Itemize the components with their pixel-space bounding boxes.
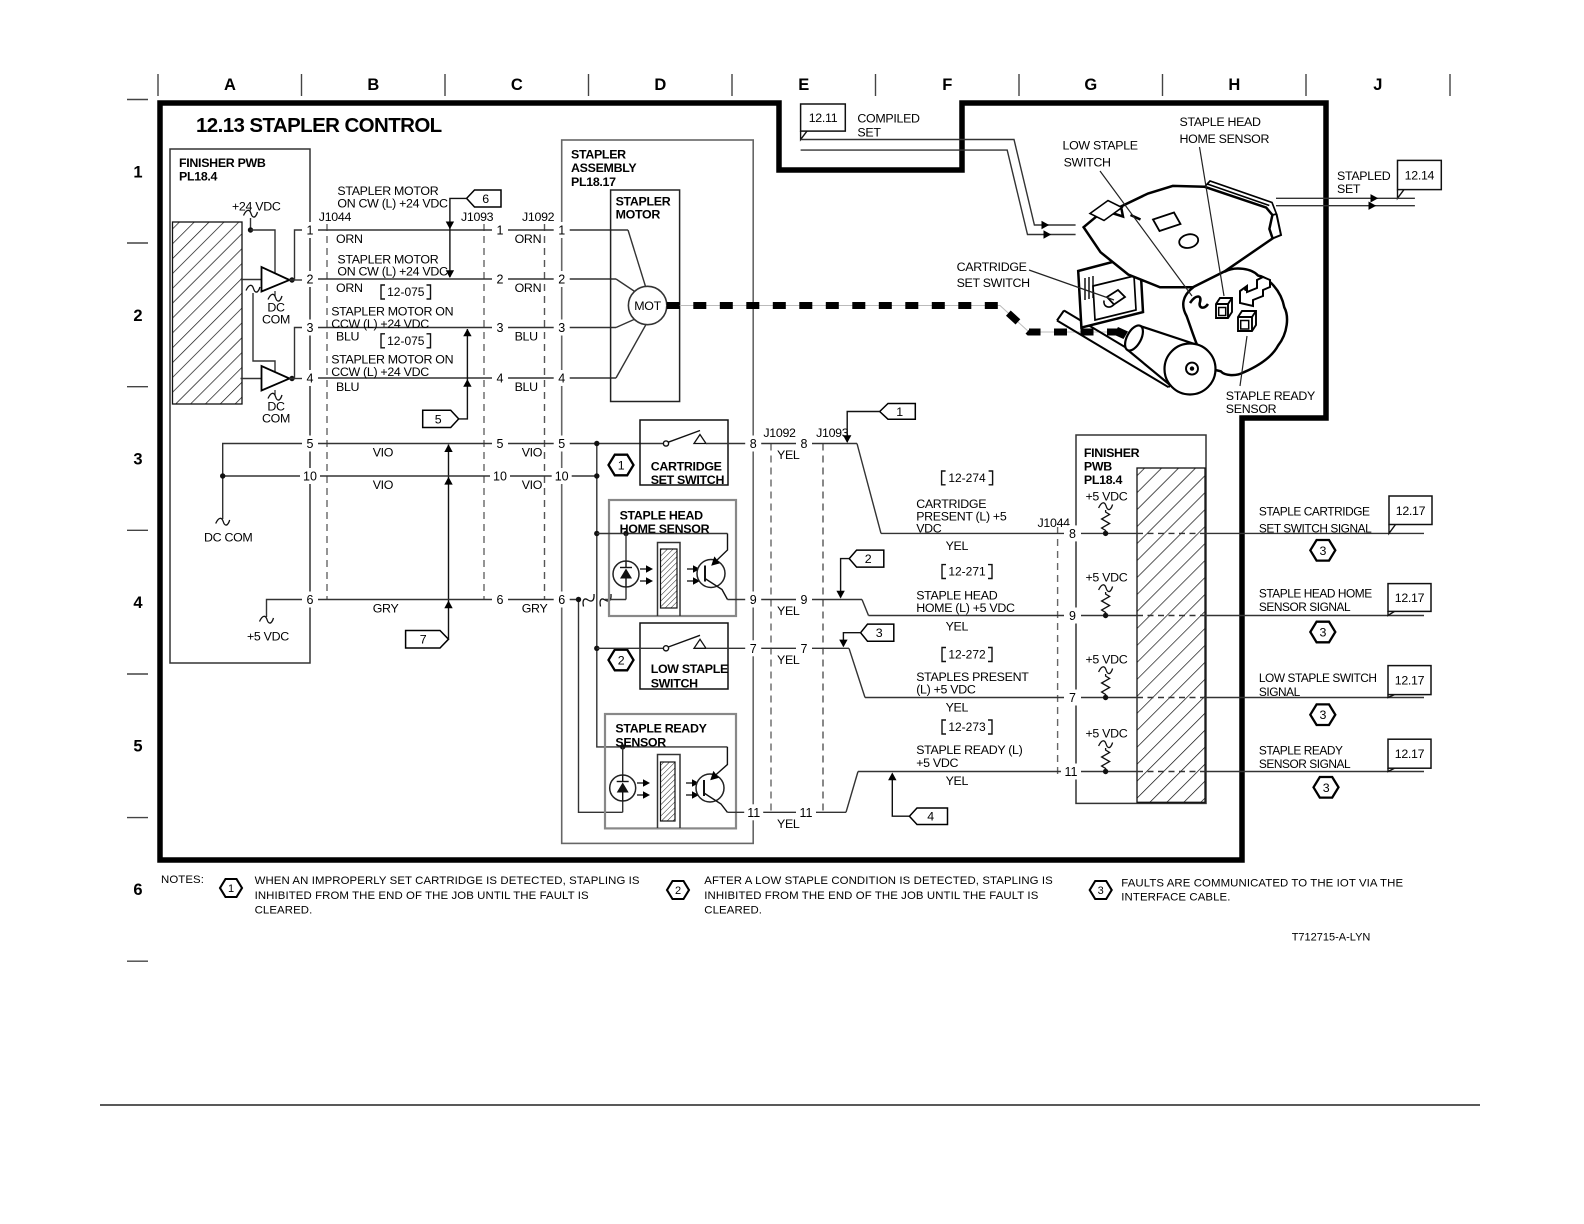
fault reference 12-273: [942, 720, 992, 734]
svg-text:CLEARED.: CLEARED.: [704, 904, 762, 916]
svg-text:5: 5: [133, 738, 142, 756]
stapler pictorial low staple switch lever: [1190, 297, 1208, 308]
svg-text:SIGNAL: SIGNAL: [1259, 685, 1301, 699]
svg-text:3: 3: [497, 321, 504, 335]
signal label cartridge present: [916, 497, 1007, 553]
svg-text:STAPLE HEAD: STAPLE HEAD: [1180, 115, 1262, 129]
motor driver U1 (CW): [241, 267, 291, 327]
LED of staple head home sensor: [613, 561, 653, 587]
svg-text:BLU: BLU: [336, 380, 359, 394]
svg-text:12-075: 12-075: [387, 285, 425, 299]
drawing number: [1292, 931, 1371, 943]
svg-text:4: 4: [133, 594, 143, 612]
svg-text:3: 3: [1098, 885, 1104, 897]
svg-text:J1093: J1093: [461, 210, 494, 224]
+24 VDC feed to driver U2: [246, 285, 275, 375]
svg-text:LOW STAPLE: LOW STAPLE: [1063, 139, 1138, 153]
svg-text:STAPLE CARTRIDGE: STAPLE CARTRIDGE: [1259, 504, 1370, 518]
signal label staple ready: [916, 743, 1022, 788]
label staple head home sensor: [1180, 115, 1270, 296]
svg-text:2: 2: [307, 273, 314, 287]
label staple ready sensor: [1226, 336, 1315, 416]
flag 1 arrow to pin 8: [843, 404, 915, 444]
footer rule: [100, 1104, 1480, 1106]
note hexagon 3 legend: [1090, 881, 1112, 899]
svg-text:12.17: 12.17: [1396, 504, 1426, 518]
svg-text:SENSOR SIGNAL: SENSOR SIGNAL: [1259, 757, 1351, 771]
note hexagon 2: [609, 650, 634, 671]
note hexagon 3 row 8: [1310, 540, 1335, 561]
svg-text:F: F: [942, 76, 952, 94]
finisher PWB PL18.4 box (right): [1076, 435, 1206, 803]
callout 12.17 row 11: [1388, 739, 1431, 771]
connector J1093 output pin numbers: [796, 436, 816, 821]
svg-text:SWITCH: SWITCH: [1064, 156, 1111, 170]
svg-text:SET: SET: [857, 125, 881, 139]
interrupter slot and flag of staple head home sensor: [658, 543, 681, 617]
svg-text:10: 10: [303, 470, 317, 484]
stapler pictorial staple ready sensor block: [1238, 311, 1256, 331]
svg-text:10: 10: [555, 470, 569, 484]
wire VIO pin 5: [317, 444, 663, 460]
phototransistor of staple head home sensor: [687, 534, 746, 600]
stapler motor box: [611, 190, 680, 402]
svg-text:2: 2: [618, 654, 625, 668]
staple head home sensor: [597, 500, 736, 616]
svg-text:WHEN AN IMPROPERLY SET CARTRID: WHEN AN IMPROPERLY SET CARTRIDGE IS DETE…: [255, 875, 640, 887]
pull-up resistor R4: [1086, 727, 1128, 775]
svg-text:12-075: 12-075: [387, 334, 425, 348]
svg-text:1: 1: [618, 459, 625, 473]
svg-text:ON CW (L) +24 VDC: ON CW (L) +24 VDC: [337, 265, 448, 279]
svg-text:J: J: [1373, 76, 1382, 94]
svg-text:B: B: [367, 76, 379, 94]
motor MOT: [628, 286, 666, 324]
svg-text:2: 2: [865, 552, 872, 566]
svg-text:5: 5: [497, 437, 504, 451]
svg-text:COM: COM: [262, 412, 290, 426]
svg-text:12.14: 12.14: [1405, 168, 1435, 182]
note hexagon 3 row 7: [1310, 704, 1335, 725]
svg-text:YEL: YEL: [946, 619, 969, 633]
svg-text:6: 6: [133, 881, 142, 899]
notes legend: [161, 874, 204, 886]
svg-text:3: 3: [876, 626, 883, 640]
svg-text:7: 7: [750, 642, 757, 656]
cartridge set switch: [640, 420, 746, 487]
svg-text:G: G: [1084, 76, 1097, 94]
output label low staple switch signal: [1259, 671, 1377, 699]
svg-text:BLU: BLU: [336, 330, 359, 344]
svg-text:T712715-A-LYN: T712715-A-LYN: [1292, 931, 1371, 943]
compiled set callout 12.11: [801, 104, 920, 140]
svg-text:YEL: YEL: [946, 701, 969, 715]
svg-text:+5 VDC: +5 VDC: [916, 756, 958, 770]
connector J1093 pin numbers: [490, 222, 510, 608]
svg-text:11: 11: [1065, 765, 1078, 779]
svg-text:SET SWITCH: SET SWITCH: [651, 473, 725, 487]
svg-text:ORN: ORN: [515, 232, 542, 246]
svg-text:VIO: VIO: [373, 478, 394, 492]
svg-text:4: 4: [497, 372, 504, 386]
signal label staple head home: [916, 589, 1015, 634]
svg-text:STAPLE READY: STAPLE READY: [615, 721, 707, 735]
fault reference 12-075 lower: [381, 334, 431, 348]
stapler pictorial body blob: [1183, 269, 1287, 376]
svg-text:J1044: J1044: [319, 210, 352, 224]
svg-text:2: 2: [675, 885, 681, 897]
wire BLU pin 3: [317, 320, 634, 344]
wire BLU pin 4: [317, 325, 646, 395]
phototransistor of staple ready sensor: [686, 747, 746, 812]
svg-text:6: 6: [482, 192, 489, 206]
connector J1044 output pin numbers: [1061, 525, 1081, 779]
svg-text:12-273: 12-273: [948, 720, 986, 734]
svg-text:PWB: PWB: [1084, 459, 1112, 473]
svg-text:12.17: 12.17: [1395, 591, 1425, 605]
connector J1093: [461, 210, 494, 600]
wire staple cartridge set switch signal: [881, 532, 1424, 534]
svg-text:4: 4: [307, 372, 314, 386]
svg-text:HOME (L) +5 VDC: HOME (L) +5 VDC: [916, 601, 1015, 615]
note hexagon 1: [609, 455, 634, 476]
svg-text:STAPLE HEAD HOME: STAPLE HEAD HOME: [1259, 586, 1372, 600]
svg-text:FINISHER PWB: FINISHER PWB: [179, 156, 266, 170]
wire YEL pin 8: [761, 444, 881, 534]
svg-text:BLU: BLU: [515, 330, 538, 344]
fault reference 12-271: [942, 565, 992, 579]
svg-text:STAPLE HEAD: STAPLE HEAD: [620, 508, 704, 522]
svg-text:J1093: J1093: [816, 426, 849, 440]
svg-text:SET SWITCH: SET SWITCH: [957, 276, 1030, 290]
wire VIO pin 10: [317, 476, 597, 492]
svg-text:2: 2: [558, 273, 565, 287]
stapler pictorial cartridge box: [1078, 255, 1143, 328]
wire GRY pin 6: [317, 600, 581, 616]
stapled set callout 12.14: [1337, 160, 1441, 198]
svg-text:D: D: [654, 76, 666, 94]
stapler assembly PL18.17 box: [562, 140, 754, 843]
svg-text:2: 2: [497, 273, 504, 287]
svg-text:8: 8: [801, 437, 808, 451]
note hexagon 3 row 11: [1314, 777, 1339, 798]
svg-text:9: 9: [750, 593, 757, 607]
note 3 text: [1121, 878, 1403, 904]
svg-text:SENSOR: SENSOR: [1226, 402, 1277, 416]
output label staple ready sensor signal: [1259, 743, 1351, 771]
junction bus node: [594, 441, 727, 747]
svg-text:STAPLE READY (L): STAPLE READY (L): [916, 743, 1022, 757]
pull-up resistor R2: [1086, 571, 1128, 619]
svg-text:AFTER A LOW STAPLE CONDITION: AFTER A LOW STAPLE CONDITION IS DETECTED…: [704, 875, 1053, 887]
svg-text:12-272: 12-272: [948, 648, 986, 662]
svg-text:GRY: GRY: [522, 602, 548, 616]
motor driver U2 (CCW): [241, 366, 291, 426]
wire YEL pin 7: [761, 648, 865, 697]
svg-text:12.17: 12.17: [1395, 747, 1425, 761]
signal label stapler motor on CW pin1: [337, 184, 448, 210]
svg-text:5: 5: [307, 437, 314, 451]
output label staple head home sensor signal: [1259, 586, 1372, 614]
svg-text:1: 1: [133, 164, 142, 182]
svg-text:4: 4: [558, 372, 565, 386]
svg-text:8: 8: [1069, 527, 1076, 541]
svg-text:2: 2: [133, 307, 142, 325]
svg-text:STAPLE READY: STAPLE READY: [1226, 389, 1315, 403]
output label staple cartridge set switch signal: [1259, 504, 1372, 535]
svg-text:3: 3: [1320, 708, 1327, 722]
svg-text:INHIBITED FROM THE END OF THE: INHIBITED FROM THE END OF THE JOB UNTIL …: [255, 890, 589, 902]
svg-text:+5 VDC: +5 VDC: [247, 630, 289, 644]
note 2 text: [704, 875, 1053, 916]
svg-text:8: 8: [750, 437, 757, 451]
svg-text:ON CW (L) +24 VDC: ON CW (L) +24 VDC: [337, 197, 448, 211]
connector J1092 pin numbers: [552, 222, 572, 608]
svg-text:VIO: VIO: [373, 446, 394, 460]
svg-text:ORN: ORN: [515, 281, 542, 295]
note hexagon 2 legend: [667, 881, 689, 899]
svg-text:CARTRIDGE: CARTRIDGE: [651, 459, 722, 473]
svg-text:12.13 STAPLER CONTROL: 12.13 STAPLER CONTROL: [196, 114, 442, 137]
svg-text:J1092: J1092: [522, 210, 555, 224]
signal label stapler motor on CCW pin3: [331, 305, 453, 331]
pull-up resistor R1: [1086, 489, 1128, 536]
flag 2 arrow to pin 9: [836, 550, 883, 598]
svg-text:YEL: YEL: [946, 774, 969, 788]
svg-text:GRY: GRY: [373, 602, 399, 616]
hatched PWB area: [173, 222, 243, 404]
svg-text:6: 6: [307, 593, 314, 607]
flag 4 arrow to pin 11: [888, 773, 947, 825]
svg-text:1: 1: [228, 883, 234, 895]
driver U2 output ties pins 3-4: [289, 328, 303, 382]
svg-text:11: 11: [747, 806, 760, 820]
note hexagon 1 legend: [220, 879, 242, 897]
svg-text:SET: SET: [1337, 182, 1361, 196]
svg-text:3: 3: [1323, 781, 1330, 795]
label low staple switch: [1063, 139, 1193, 296]
svg-text:12.17: 12.17: [1395, 674, 1425, 688]
svg-text:PL18.4: PL18.4: [1084, 473, 1123, 487]
fault reference 12-274: [942, 471, 993, 485]
stapler pictorial guide bar: [1057, 311, 1176, 388]
svg-text:(L) +5 VDC: (L) +5 VDC: [916, 683, 976, 697]
svg-text:FINISHER: FINISHER: [1084, 446, 1140, 460]
low staple switch: [597, 623, 746, 691]
staple ready sensor: [605, 714, 736, 828]
svg-text:+5 VDC: +5 VDC: [1086, 571, 1128, 585]
svg-text:BLU: BLU: [515, 380, 538, 394]
LED of staple ready sensor: [610, 775, 650, 801]
wire staple ready sensor signal: [858, 771, 1424, 773]
svg-text:ORN: ORN: [336, 281, 363, 295]
svg-text:STAPLED: STAPLED: [1337, 169, 1391, 183]
svg-text:7: 7: [801, 642, 808, 656]
svg-text:C: C: [511, 76, 523, 94]
svg-text:COMPILED: COMPILED: [857, 111, 920, 125]
flag 5 with arrows to pins 3-4: [423, 329, 472, 428]
svg-text:PL18.4: PL18.4: [179, 170, 218, 184]
connector J1093 output side: [816, 426, 849, 812]
svg-text:9: 9: [1069, 609, 1076, 623]
svg-text:6: 6: [558, 593, 565, 607]
wire YEL pin 9: [761, 600, 869, 619]
svg-text:VIO: VIO: [522, 478, 543, 492]
svg-text:3: 3: [1320, 544, 1327, 558]
svg-text:J1092: J1092: [763, 426, 796, 440]
stapler pictorial roller: [1121, 323, 1215, 395]
+24 VDC supply node: [232, 200, 281, 277]
wire break squiggles row 6: [583, 594, 626, 607]
svg-text:MOTOR: MOTOR: [616, 208, 661, 222]
svg-text:CLEARED.: CLEARED.: [255, 904, 313, 916]
stapler pictorial top plate: [1084, 186, 1273, 287]
fault reference 12-075 upper: [381, 285, 431, 299]
stapled set paper path lines: [1276, 194, 1415, 210]
compiled set paper path lines: [801, 140, 1076, 239]
signal label stapler motor on CCW pin4: [331, 353, 453, 379]
svg-text:11: 11: [800, 806, 813, 820]
callout 12.17 row 8: [1389, 496, 1432, 533]
schematic boundary frame: [160, 103, 1326, 860]
svg-text:+5 VDC: +5 VDC: [1086, 727, 1128, 741]
svg-text:STAPLE READY: STAPLE READY: [1259, 743, 1343, 757]
svg-text:3: 3: [133, 451, 142, 469]
svg-text:SET SWITCH SIGNAL: SET SWITCH SIGNAL: [1259, 522, 1372, 536]
svg-text:FAULTS ARE COMMUNICATED TO THE: FAULTS ARE COMMUNICATED TO THE IOT VIA T…: [1121, 878, 1403, 890]
flag 7 with arrows to pins 5 10 6: [406, 444, 453, 648]
svg-text:9: 9: [801, 593, 808, 607]
svg-text:SWITCH: SWITCH: [651, 677, 698, 691]
svg-text:+24 VDC: +24 VDC: [232, 200, 281, 214]
svg-text:INTERFACE CABLE.: INTERFACE CABLE.: [1121, 892, 1230, 904]
fault reference 12-272: [942, 648, 992, 662]
svg-text:4: 4: [927, 810, 934, 824]
svg-text:DC COM: DC COM: [204, 531, 252, 545]
svg-text:INHIBITED FROM THE END OF THE: INHIBITED FROM THE END OF THE JOB UNTIL …: [704, 890, 1038, 902]
connector J1044: [319, 210, 352, 600]
svg-text:1: 1: [307, 224, 314, 238]
branch node to staple ready LED: [576, 597, 623, 813]
wire ORN pin 1: [317, 230, 646, 288]
wire staple head home sensor signal: [869, 615, 1425, 617]
mechanical linkage dashed bar: [667, 306, 1121, 333]
svg-text:5: 5: [558, 437, 565, 451]
signal label staples present: [916, 670, 1029, 715]
svg-text:1: 1: [896, 405, 903, 419]
svg-text:STAPLER: STAPLER: [571, 148, 626, 162]
svg-text:PL18.17: PL18.17: [571, 175, 616, 189]
interrupter slot and flag of staple ready sensor: [658, 755, 681, 829]
callout 12.17 row 9: [1388, 584, 1431, 616]
connector J1092: [522, 210, 555, 600]
svg-text:VIO: VIO: [522, 446, 543, 460]
svg-text:CCW (L) +24 VDC: CCW (L) +24 VDC: [331, 365, 429, 379]
svg-text:3: 3: [1320, 626, 1327, 640]
finisher PWB PL18.4 box (left): [170, 149, 310, 663]
svg-text:COM: COM: [262, 313, 290, 327]
svg-text:SENSOR SIGNAL: SENSOR SIGNAL: [1259, 600, 1351, 614]
svg-text:LOW STAPLE: LOW STAPLE: [651, 662, 728, 676]
svg-text:+5 VDC: +5 VDC: [1086, 489, 1128, 503]
callout 12.17 row 7: [1388, 666, 1431, 698]
wire YEL pin 11: [761, 772, 858, 831]
connector J1044 output side: [1038, 516, 1071, 775]
pull-up resistor R3: [1086, 652, 1128, 700]
svg-text:3: 3: [307, 321, 314, 335]
svg-text:6: 6: [497, 593, 504, 607]
svg-text:LOW STAPLE SWITCH: LOW STAPLE SWITCH: [1259, 671, 1377, 685]
DC COM return pins 5 and 10: [204, 444, 303, 545]
stapler pictorial bracket clip: [1240, 277, 1270, 306]
connector J1044 pin numbers: [300, 222, 320, 608]
signal label stapler motor on CW pin2: [337, 252, 448, 278]
svg-text:NOTES:: NOTES:: [161, 874, 204, 886]
note hexagon 3 row 9: [1310, 622, 1335, 643]
svg-text:12-274: 12-274: [948, 471, 986, 485]
svg-text:CCW (L) +24 VDC: CCW (L) +24 VDC: [331, 317, 429, 331]
wire low staple switch signal: [865, 697, 1424, 699]
svg-text:1: 1: [497, 224, 504, 238]
stapler pictorial staple head home sensor block: [1216, 298, 1232, 318]
svg-text:12-271: 12-271: [948, 565, 986, 579]
connector J1092 output side: [763, 426, 796, 812]
flag 6 with arrows to pins 1-2: [446, 190, 501, 278]
svg-text:YEL: YEL: [946, 539, 969, 553]
label cartridge set switch: [957, 260, 1114, 300]
driver U1 output ties pins 1-2: [289, 230, 303, 283]
stapler assembly output pin numbers: [744, 436, 763, 821]
+5 VDC feed pin 6: [247, 600, 303, 644]
svg-text:7: 7: [1069, 691, 1076, 705]
svg-text:H: H: [1228, 76, 1240, 94]
svg-text:CARTRIDGE: CARTRIDGE: [957, 260, 1027, 274]
svg-text:5: 5: [435, 412, 442, 426]
svg-text:HOME SENSOR: HOME SENSOR: [1180, 132, 1270, 146]
flag 3 arrow to pin 7: [839, 624, 894, 647]
svg-text:ASSEMBLY: ASSEMBLY: [571, 161, 637, 175]
stapler pictorial head ridge: [1205, 181, 1281, 238]
svg-text:7: 7: [420, 633, 427, 647]
svg-text:12.11: 12.11: [809, 111, 838, 125]
svg-text:10: 10: [493, 470, 507, 484]
wire ORN pin 2: [317, 279, 634, 295]
svg-text:A: A: [224, 76, 236, 94]
svg-text:MOT: MOT: [634, 299, 661, 313]
svg-text:+5 VDC: +5 VDC: [1086, 652, 1128, 666]
svg-text:1: 1: [558, 224, 565, 238]
svg-text:E: E: [798, 76, 809, 94]
svg-text:3: 3: [558, 321, 565, 335]
note 1 text: [255, 875, 640, 916]
svg-text:ORN: ORN: [336, 232, 363, 246]
